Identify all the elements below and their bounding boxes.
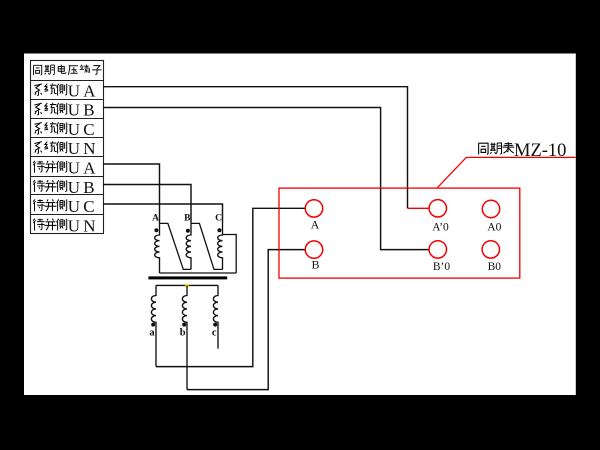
svg-text:A: A	[152, 214, 159, 224]
terminal BO	[482, 241, 501, 273]
transformer core bar	[148, 276, 227, 279]
row 系统侧UA	[34, 81, 98, 100]
row 系统侧UN	[34, 139, 98, 158]
svg-text:B0: B0	[488, 261, 502, 273]
terminal strip table 同期电压端子	[31, 61, 104, 234]
svg-text:c: c	[212, 328, 217, 339]
red stub wire into terminal A'O	[408, 207, 430, 209]
delta link winding A top to winding B bottom	[160, 223, 192, 269]
secondary top bus	[156, 284, 218, 286]
row 系统侧UB	[34, 101, 97, 120]
primary bottom bus	[160, 272, 237, 274]
wire 待并侧UC to transformer phase C	[103, 204, 223, 222]
terminal A	[305, 200, 322, 232]
delta closure winding C top to bottom bus	[223, 235, 237, 274]
wire 待并侧UA to transformer phase A	[103, 164, 160, 222]
wire 系统侧UA to terminal A'O	[103, 87, 408, 209]
row 待并侧UB	[33, 178, 98, 197]
terminal B'O	[429, 241, 450, 273]
svg-text:UC: UC	[68, 120, 98, 139]
svg-text:C: C	[215, 214, 222, 224]
svg-text:UB: UB	[68, 101, 98, 120]
table header 同期电压端子	[34, 65, 102, 75]
wire secondary b to terminal B	[187, 250, 305, 390]
terminal B	[305, 241, 322, 272]
svg-text:A0: A0	[487, 221, 501, 233]
svg-text:B: B	[184, 214, 191, 224]
row 系统侧UC	[34, 120, 97, 139]
svg-text:UN: UN	[68, 139, 99, 158]
row 待并侧UC	[33, 197, 98, 216]
svg-text:UN: UN	[68, 216, 99, 235]
secondary neutral junction (yellow)	[185, 284, 188, 287]
svg-text:A’0: A’0	[432, 221, 449, 233]
svg-text:UA: UA	[68, 81, 99, 100]
svg-text:b: b	[180, 328, 186, 339]
svg-text:B: B	[311, 258, 319, 272]
transformer T1 secondary winding a	[149, 285, 156, 366]
wire 系统侧UB to terminal B'O	[103, 108, 429, 250]
svg-text:UA: UA	[68, 159, 99, 178]
transformer T1 primary winding C	[215, 214, 222, 270]
label 同期表MZ-10	[479, 141, 567, 161]
transformer T1 secondary winding c (open stub)	[212, 285, 218, 348]
row 待并侧UA	[33, 159, 99, 178]
leader line to MZ-10 label	[437, 157, 576, 188]
transformer T1 primary winding B	[184, 214, 191, 270]
transformer T1 secondary winding b	[180, 285, 187, 389]
svg-text:UB: UB	[68, 178, 98, 197]
svg-text:A: A	[311, 218, 320, 232]
wire 待并侧UB to transformer phase B	[103, 185, 191, 223]
wire secondary a to terminal A	[156, 208, 305, 366]
row 待并侧UN	[33, 216, 99, 235]
transformer T1 primary winding A	[152, 214, 159, 274]
delta link winding B top to winding C bottom	[191, 223, 223, 269]
svg-text:B’0: B’0	[433, 261, 451, 273]
svg-text:UC: UC	[68, 197, 98, 216]
terminal AO	[482, 200, 501, 233]
synchronization meter MZ-10 enclosure	[279, 188, 520, 278]
svg-text:a: a	[149, 328, 155, 339]
terminal A'O	[429, 200, 449, 234]
